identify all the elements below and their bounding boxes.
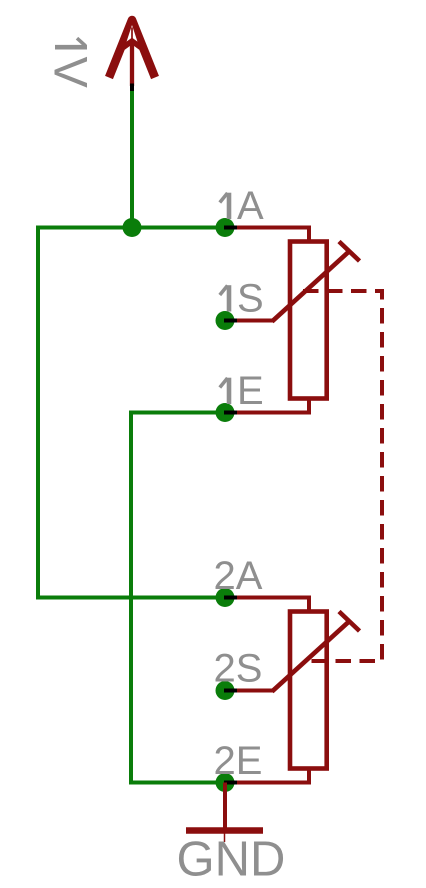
pin label 1E: digit 1 flag — [220, 378, 228, 388]
pin 2S stub (black) — [224, 689, 237, 693]
pot R2 lead 2E (dark red) — [225, 769, 309, 783]
potentiometer R1 body — [290, 242, 327, 399]
pot R2 lead 2S (dark red) — [225, 689, 273, 693]
pin 1S dot — [216, 311, 235, 330]
supply symbol inner tip line — [131, 28, 133, 43]
R1 wiper T-bar — [339, 242, 360, 262]
svg-text:2S: 2S — [214, 647, 263, 691]
GND symbol origin tick — [224, 834, 226, 843]
pin 2E dot — [216, 773, 235, 792]
wire 2A horizontal — [38, 596, 225, 600]
pin 1A dot — [216, 218, 235, 237]
R2 wiper T-bar — [339, 612, 360, 632]
wire left vertical — [36, 226, 40, 600]
R1 wiper diagonal — [272, 252, 349, 322]
pin label 1A: digit 1 flag — [220, 193, 228, 203]
supply symbol 1V arrow outer chevron — [109, 20, 155, 78]
GND symbol bar — [186, 827, 263, 834]
svg-text:2A: 2A — [214, 554, 263, 598]
supply pin tip (black) — [130, 84, 134, 92]
pin 2A stub (black) — [224, 596, 237, 600]
pin label 1E: digit 1 stem — [227, 378, 232, 404]
pin 1A stub (black) — [224, 226, 237, 230]
pot R1 lead 1E (dark red) — [225, 399, 309, 413]
supply symbol inner arrowhead — [122, 41, 142, 49]
wire top horizontal — [38, 226, 225, 230]
pin 2E stub (black) — [224, 781, 237, 785]
pin 2S dot — [216, 681, 235, 700]
dashed gang link between wipers — [303, 291, 382, 661]
pin label 1A: digit 1 stem — [227, 193, 232, 219]
pin 1E dot — [216, 403, 235, 422]
wire 1E horizontal (green) — [131, 411, 225, 415]
supply symbol stem — [130, 40, 134, 86]
pin label 1S: digit 1 stem — [227, 285, 232, 311]
GND symbol stem (dark red) — [223, 783, 227, 831]
svg-text:S: S — [237, 277, 264, 321]
supply symbol inner white notch — [124, 25, 140, 50]
svg-text:E: E — [237, 369, 264, 413]
label 1V: digit 1 flag — [77, 38, 86, 46]
potentiometer R2 body — [290, 612, 327, 769]
junction dot at supply tee — [123, 218, 142, 237]
svg-text:GND: GND — [177, 833, 286, 887]
svg-text:A: A — [237, 184, 264, 228]
label 1V: digit 1 stem — [55, 45, 87, 50]
R2 wiper diagonal — [272, 622, 349, 692]
wire mid vertical — [129, 411, 133, 785]
pot R1 lead 1S (dark red) — [225, 319, 273, 323]
wire 2E horizontal (green) — [131, 781, 225, 785]
pot R2 lead 2A (dark red) — [225, 598, 309, 612]
svg-text:2E: 2E — [214, 739, 263, 783]
pot R1 lead 1A (dark red) — [225, 228, 309, 242]
pin label 1S: digit 1 flag — [220, 286, 228, 296]
wire supply stem (green) — [130, 91, 134, 228]
svg-text:V: V — [45, 57, 98, 89]
pin 2A dot — [216, 588, 235, 607]
pin 1S stub (black) — [224, 319, 237, 323]
pin 1E stub (black) — [224, 411, 237, 415]
